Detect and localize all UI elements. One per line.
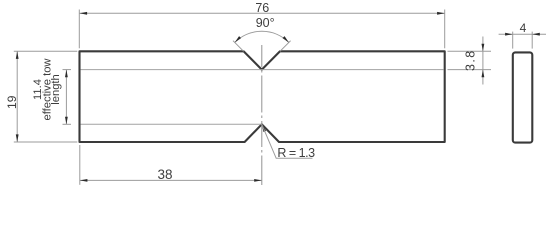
dimension 11.4 extension line bottom — [63, 123, 72, 125]
notch flank extension line left — [233, 41, 244, 52]
centerline through notches — [261, 45, 263, 185]
dimension 19 arrow top — [16, 51, 19, 59]
dimension 11.4 arrow top — [65, 70, 68, 78]
dimension 76 extension line left — [78, 10, 80, 49]
svg-text:90°: 90° — [256, 16, 275, 30]
dimension 11.4 arrow bottom — [65, 117, 68, 125]
svg-text:76: 76 — [255, 1, 269, 15]
dimension 76 extension line right — [444, 10, 446, 49]
dimension 4 extension line left — [512, 32, 514, 49]
tow boundary line upper — [81, 69, 444, 71]
dimension 38 line — [80, 179, 262, 181]
dimension 11.4 extension line top — [63, 69, 72, 71]
svg-text:3.8: 3.8 — [463, 49, 477, 71]
dimension 4 arrow left — [505, 33, 513, 36]
dimension 19 extension line top — [14, 50, 78, 52]
svg-text:38: 38 — [157, 167, 172, 182]
radius leader arrow — [261, 124, 267, 132]
tow boundary line lower — [81, 123, 262, 125]
dimension 19 line — [16, 51, 18, 142]
dimension 38 arrow right — [254, 179, 262, 182]
dimension 38 arrow left — [80, 179, 88, 182]
dimension 3.8 extension line bottom — [448, 69, 492, 71]
dimension 4 arrow right — [532, 33, 540, 36]
svg-text:19: 19 — [5, 95, 19, 109]
dimension 4 line — [499, 33, 546, 35]
dimension 76 arrow left — [80, 12, 88, 15]
svg-text:R = 1.3: R = 1.3 — [277, 146, 315, 160]
dimension 3.8 arrow top — [482, 44, 485, 52]
dimension 76 line — [80, 12, 445, 14]
dimension 90 degree arrow right — [283, 36, 290, 43]
specimen front view outline — [80, 51, 445, 142]
radius leader line — [262, 124, 313, 158]
dimension 4 extension line right — [531, 32, 533, 49]
dimension 11.4 line — [65, 70, 67, 125]
notch flank extension line right — [280, 41, 291, 52]
dimension 90 degree arrow left — [234, 36, 241, 43]
svg-text:length: length — [50, 74, 62, 104]
dimension 3.8 extension line top — [448, 50, 492, 52]
dimension 19 extension line bottom — [14, 141, 78, 143]
dimension 19 arrow bottom — [16, 134, 19, 142]
dimension 3.8 arrow bottom — [482, 70, 485, 78]
dimension 90 degree arc — [235, 31, 289, 42]
specimen side view outline — [513, 52, 533, 142]
dimension 76 arrow right — [437, 12, 445, 15]
dimension 3.8 line — [482, 37, 484, 85]
dimension 38 extension line left — [79, 145, 81, 185]
svg-text:4: 4 — [520, 21, 527, 35]
